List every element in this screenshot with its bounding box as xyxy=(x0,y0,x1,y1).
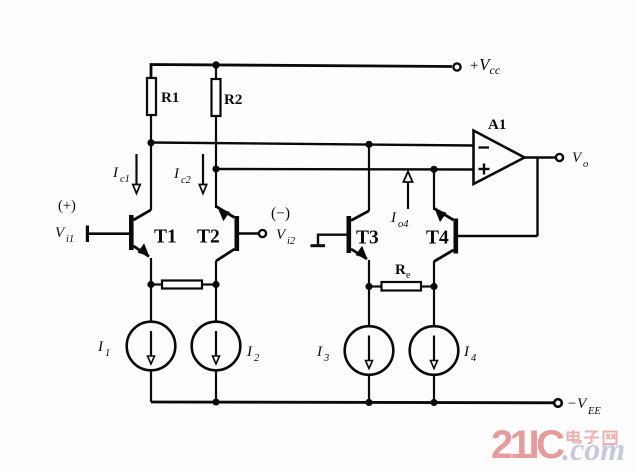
svg-text:c1: c1 xyxy=(120,174,130,185)
svg-text:I: I xyxy=(390,210,397,226)
resistor R2 xyxy=(212,79,221,116)
label T1 xyxy=(154,227,177,248)
svg-text:4: 4 xyxy=(471,353,477,364)
current source I4 xyxy=(410,326,459,375)
wire T2 base output xyxy=(239,232,259,235)
svg-text:2: 2 xyxy=(254,353,260,364)
svg-text:I: I xyxy=(112,165,119,181)
resistor Re1 (T1-T2 emitter coupling) xyxy=(162,281,202,289)
wire I1 bottom lead xyxy=(150,370,152,402)
svg-text:V: V xyxy=(276,227,287,243)
label Ic2 xyxy=(173,166,192,186)
wire I3 bottom lead xyxy=(368,375,370,404)
wire T3 collector lead xyxy=(368,143,370,211)
svg-text:+Vcc: +Vcc xyxy=(469,55,501,77)
wire R1 bottom lead xyxy=(150,115,152,143)
label Re xyxy=(395,262,411,281)
terminal +Vcc xyxy=(453,63,460,70)
wire feedback from output to T4 base xyxy=(536,158,538,237)
op-amp A1 xyxy=(474,131,525,185)
node R2 top junction xyxy=(212,61,219,68)
label I3 xyxy=(316,344,329,364)
terminal -VEE xyxy=(554,399,562,407)
wire I3 top lead xyxy=(368,287,370,327)
node T4 collector junction on lower bus xyxy=(430,166,437,173)
wire Re left lead xyxy=(369,285,382,287)
svg-text:I: I xyxy=(246,344,253,360)
svg-text:o4: o4 xyxy=(398,219,409,230)
label R1 xyxy=(161,90,179,106)
current arrow Ic2 xyxy=(199,154,206,194)
wire I4 bottom lead xyxy=(433,375,435,404)
svg-text:i1: i1 xyxy=(66,234,74,245)
terminal Vo xyxy=(556,154,563,161)
label I2 xyxy=(246,344,260,364)
svg-text:T1: T1 xyxy=(154,227,177,248)
wire T3 base to ground xyxy=(318,235,347,245)
wire upper bus to op-amp minus input xyxy=(151,143,474,146)
current source I3 xyxy=(345,326,394,375)
label Vi2 xyxy=(276,227,296,247)
terminal Vi2 xyxy=(259,230,266,237)
svg-text:A1: A1 xyxy=(488,117,506,133)
svg-text:c2: c2 xyxy=(181,175,192,186)
label -VEE xyxy=(567,396,601,417)
current source I2 xyxy=(192,322,241,371)
svg-text:R1: R1 xyxy=(161,90,179,106)
label I4 xyxy=(463,344,477,364)
node T3 collector junction on upper bus xyxy=(365,141,372,148)
current arrow Io4 xyxy=(403,172,412,210)
wire R2 bottom lead through to T2 collector xyxy=(215,116,217,206)
label Vo xyxy=(572,150,588,170)
resistor Re xyxy=(382,282,422,291)
svg-text:3: 3 xyxy=(323,353,329,364)
svg-text:I: I xyxy=(97,339,104,355)
ground xyxy=(311,244,326,247)
transistor T1 xyxy=(129,210,151,257)
label A1 xyxy=(488,117,506,133)
label Io4 xyxy=(390,210,409,230)
wire T2 emitter lead xyxy=(215,261,217,285)
wire T4 collector lead xyxy=(433,169,435,210)
node T2 emitter junction xyxy=(212,281,219,288)
svg-text:V: V xyxy=(572,150,583,166)
transistor T4 xyxy=(434,208,458,261)
label Vi1 xyxy=(55,225,74,245)
svg-text:V: V xyxy=(55,225,66,241)
node T1 emitter junction xyxy=(147,281,154,288)
transistor T3 xyxy=(347,211,370,259)
label (-) xyxy=(271,205,290,222)
svg-text:T3: T3 xyxy=(356,228,379,249)
wire T1 emitter lead xyxy=(150,258,152,285)
wire T4 base to feedback xyxy=(458,235,538,237)
label T2 xyxy=(197,227,220,248)
wire lower bus to op-amp plus input xyxy=(216,168,474,171)
watermark 21IC.com logo xyxy=(492,423,636,471)
svg-text:i2: i2 xyxy=(287,236,296,247)
wire bottom rail -VEE xyxy=(151,401,554,405)
wire Re right lead xyxy=(421,285,434,287)
transistor T2 xyxy=(216,206,239,261)
wire I1 top lead xyxy=(150,285,152,323)
svg-text:o: o xyxy=(583,159,588,170)
label Ic1 xyxy=(112,165,130,185)
svg-text:T2: T2 xyxy=(197,227,220,248)
svg-text:(−): (−) xyxy=(271,205,290,222)
node I2 bottom junction xyxy=(212,398,219,405)
wire T1 base input xyxy=(86,226,129,243)
wire op-amp output xyxy=(525,156,556,158)
node R2/T2 collector junction xyxy=(212,165,219,172)
svg-text:e: e xyxy=(406,270,411,281)
wire T2 collector segment xyxy=(215,206,217,208)
node R1 bottom junction xyxy=(147,139,154,146)
label I1 xyxy=(97,339,110,359)
svg-text:I: I xyxy=(316,344,323,360)
node I4 bottom junction xyxy=(430,399,437,406)
current source I1 xyxy=(127,322,176,371)
wire T3 emitter lead xyxy=(368,260,370,287)
svg-text:EE: EE xyxy=(587,406,601,417)
node T3 emitter junction xyxy=(365,283,372,290)
label +Vcc xyxy=(469,55,501,77)
wire I2 top lead xyxy=(215,285,217,323)
label R2 xyxy=(224,92,242,108)
label T3 xyxy=(356,228,379,249)
svg-text:I: I xyxy=(173,166,180,182)
label T4 xyxy=(426,228,449,249)
label (+) xyxy=(58,198,76,214)
svg-text:I: I xyxy=(463,344,470,360)
wire Re1 left lead xyxy=(151,283,162,285)
wire I2 bottom lead xyxy=(215,370,217,402)
wire Re1 right lead xyxy=(202,283,216,285)
wire T4 emitter lead xyxy=(433,261,435,287)
wire T1 collector lead xyxy=(150,143,152,210)
wire R2 top lead xyxy=(215,65,217,79)
svg-text:1: 1 xyxy=(105,348,110,359)
svg-text:R: R xyxy=(395,262,406,278)
svg-text:(+): (+) xyxy=(58,198,76,214)
node T4 emitter junction xyxy=(430,283,437,290)
wire I4 top lead xyxy=(433,287,435,327)
svg-text:−V: −V xyxy=(567,396,588,412)
wire top rail +Vcc xyxy=(151,65,452,79)
node I3 bottom junction xyxy=(365,399,372,406)
svg-text:R2: R2 xyxy=(224,92,242,108)
svg-text:T4: T4 xyxy=(426,228,449,249)
current arrow Ic1 xyxy=(133,154,140,194)
resistor R1 xyxy=(147,78,156,115)
